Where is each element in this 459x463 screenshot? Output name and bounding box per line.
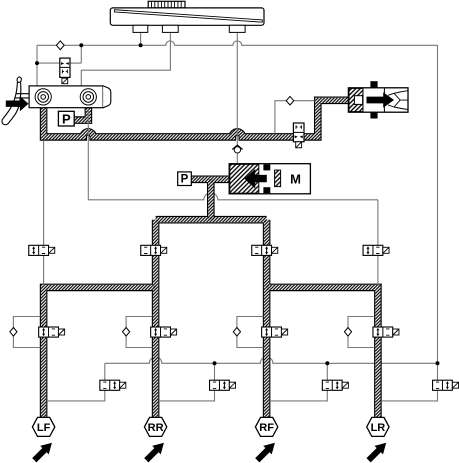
valve: LF outlet/dump (row5): [100, 380, 126, 390]
arrow: RF wheel: [255, 443, 275, 463]
node: supply/V1 junction: [79, 43, 83, 47]
arrow: RR wheel: [144, 443, 164, 463]
reservoir level indicator: [115, 10, 263, 23]
node: dump4 return junction: [436, 361, 440, 365]
reservoir cap: [148, 1, 185, 8]
wire: reservoir right outlet to check valve and pump: [236, 32, 238, 163]
wire: RR bypass loop: [126, 317, 152, 348]
node RR wheel: [144, 417, 166, 436]
valve: LR inlet (row4): [373, 327, 399, 337]
valve: RF outlet/dump (row5): [322, 380, 348, 390]
booster port tab top: [370, 81, 377, 88]
master cylinder body: [29, 86, 103, 108]
wire: reservoir left outlet: [140, 32, 142, 45]
arrow: booster output (right): [367, 92, 395, 108]
arrow: LR wheel: [366, 443, 386, 463]
node LF wheel: [32, 417, 54, 436]
diamond: LF bypass check: [10, 328, 17, 337]
svg-text:LF: LF: [37, 422, 51, 434]
piston 1: [35, 89, 51, 105]
node: dump3 return junction: [325, 361, 329, 365]
diamond: LR bypass check: [344, 328, 351, 337]
valve: RF isolation (row3): [252, 245, 278, 255]
booster hatched section: [349, 88, 363, 111]
svg-text:LR: LR: [371, 422, 386, 434]
wire: MC secondary circuit drop: [87, 97, 89, 200]
V1 bottom cell marks: [62, 70, 67, 74]
reservoir body: [110, 8, 264, 25]
svg-text:RR: RR: [148, 422, 164, 434]
V2 spring: [296, 142, 302, 148]
V2 bottom cell arrows: [295, 135, 303, 138]
pump coupling strip: [275, 170, 281, 187]
wire: RR vertical: [152, 220, 160, 417]
booster port tab bottom: [370, 112, 377, 118]
valve: LF inlet (row4): [39, 327, 65, 337]
wire: LF bypass loop: [13, 317, 40, 348]
reservoir outlet middle: [162, 25, 178, 32]
arrow: pedal force input: [6, 96, 29, 111]
booster divider: [383, 88, 385, 112]
master cylinder end cap: [103, 86, 111, 108]
arrow: pump output (left): [244, 169, 266, 189]
wire: return manifold (hops RR and RF lines): [105, 357, 438, 363]
wire: right side return drop: [437, 45, 439, 380]
diamond: booster bypass check: [286, 96, 294, 105]
V2 top cell marks: [296, 125, 301, 129]
pedal pivot: [17, 77, 22, 83]
valve: RR outlet/dump (row5): [210, 380, 236, 390]
node LR wheel: [367, 417, 389, 436]
wire: LF branch: [44, 287, 156, 417]
diamond: RF bypass check: [233, 328, 240, 337]
reservoir outlet right: [229, 25, 245, 32]
wire: riser to top line: [80, 45, 82, 63]
node: reservoir left outlet junction: [139, 43, 143, 47]
white fill pass: [44, 100, 378, 417]
wire: return manifold left drop: [104, 363, 106, 380]
pedal lever: [2, 82, 21, 125]
wire: MC primary out, main line A, riser to booster: [44, 100, 349, 137]
pedal pushrod: [15, 94, 29, 98]
wire: dump 1 bottom: [47, 390, 105, 401]
wire: LR bypass loop: [348, 317, 375, 348]
wire: RF vertical: [263, 220, 271, 417]
booster nozzle art: [388, 91, 408, 110]
valve: RR inlet (row4): [151, 327, 177, 337]
wire: booster bypass with diamond: [275, 101, 315, 134]
wire: MC to P1: [74, 107, 88, 120]
wire: RF bypass loop: [237, 317, 264, 348]
node: V1 lower junction: [35, 61, 39, 65]
svg-text:M: M: [290, 172, 301, 187]
wire: top supply line: [37, 41, 438, 45]
node RF wheel: [255, 417, 277, 436]
reservoir outlet left: [133, 25, 148, 32]
V1 top cell arrows: [61, 62, 69, 65]
wire: P2 to pump: [191, 176, 229, 184]
diamond: RR bypass check: [123, 328, 130, 337]
wire: pump down riser: [207, 179, 215, 219]
valve: RF inlet (row4): [262, 327, 288, 337]
node: dump2 return junction: [213, 361, 217, 365]
V1 spring: [62, 78, 68, 84]
wire: valve V1 right port: [70, 62, 81, 64]
wire: left drop to MC: [36, 45, 38, 86]
arrow: LF wheel: [32, 443, 52, 463]
valve: RR isolation (row3): [141, 245, 167, 255]
wires that hop under the thick lines: [88, 193, 437, 363]
wire: LR branch: [267, 287, 378, 417]
valve: LR outlet/dump (row5): [433, 380, 459, 390]
pump port tab top: [263, 164, 270, 170]
wire: dump 2 top/bottom: [159, 363, 215, 401]
wire: reservoir mid outlet to MC: [81, 32, 170, 86]
diamond: supply line check: [56, 41, 64, 50]
piston 2: [80, 89, 96, 105]
wire: valve V1 left port: [37, 62, 60, 64]
pump port tab bottom: [263, 187, 270, 193]
svg-text:P: P: [62, 111, 71, 126]
wire: LF feed drop: [43, 140, 45, 286]
wire: MC secondary run to LR drop (hops pump riser): [88, 193, 378, 200]
svg-text:P: P: [181, 174, 189, 186]
wire: dump 3 top/bottom: [270, 363, 327, 401]
svg-text:RF: RF: [259, 422, 274, 434]
wire: LR feed drop: [377, 200, 379, 286]
wire: manifold: [156, 216, 267, 224]
hatch pass: [44, 100, 378, 417]
booster inner square: [354, 96, 362, 105]
valve: LR isolation (row3): [363, 245, 389, 255]
wire: dump 4 bottom: [381, 390, 437, 401]
valve: LF isolation (row3): [29, 245, 55, 255]
pump hatched section: [230, 164, 259, 193]
